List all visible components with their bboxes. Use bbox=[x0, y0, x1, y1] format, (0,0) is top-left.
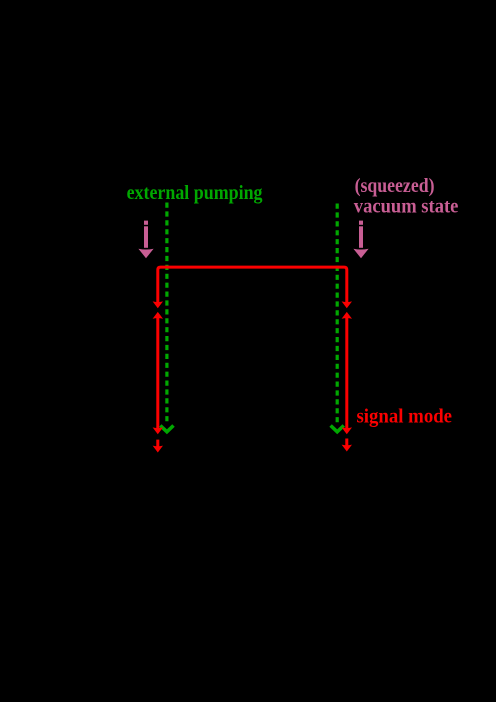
arrow: left signal output (short red) bbox=[156, 440, 159, 447]
line: left cavity mode double arrow (red) bbox=[156, 317, 159, 429]
arrowhead left staple down bbox=[153, 301, 163, 308]
svg-text:(squeezed): (squeezed) bbox=[355, 176, 435, 197]
arrow: right signal output (short red) bbox=[345, 439, 348, 446]
line: left external pumping (green dashed) bbox=[165, 203, 168, 424]
arrow: right squeezed-vacuum input (pink) bbox=[359, 221, 363, 248]
line: right cavity mode double arrow (red) bbox=[345, 317, 348, 429]
arrow: left squeezed-vacuum input (pink) bbox=[144, 221, 148, 248]
svg-text:signal mode: signal mode bbox=[357, 406, 453, 427]
arrowhead right staple down bbox=[342, 301, 352, 308]
line: right external pumping (green dashed) bbox=[336, 204, 339, 424]
svg-text:vacuum state: vacuum state bbox=[354, 196, 459, 217]
arrowhead: left green V bbox=[160, 426, 173, 432]
svg-text:external pumping: external pumping bbox=[127, 183, 263, 204]
arrowhead: right green V bbox=[331, 426, 344, 432]
path: red staple (pump into cavities) bbox=[158, 267, 347, 303]
